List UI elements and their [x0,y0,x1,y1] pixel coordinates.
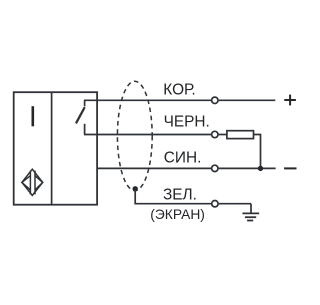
terminal circle 3 [212,165,218,171]
cable sheath ellipse [117,81,152,190]
minus sign [284,167,296,169]
wire green shield ZEL [135,189,211,204]
wire blue SIN [97,167,211,169]
svg-text:КОР.: КОР. [163,82,195,99]
wire brown KOR [84,99,211,101]
plus sign [284,95,296,106]
svg-text:(ЭКРАН): (ЭКРАН) [150,207,205,222]
wire resistor to minus rail [254,135,261,169]
sensing element diamond [22,169,43,195]
resistor load [227,131,254,139]
svg-text:ЗЕЛ.: ЗЕЛ. [163,187,197,204]
terminal circle 4 [212,201,218,207]
switch contact Q [76,100,84,134]
shield junction dot [133,186,138,191]
wire to ground [250,204,252,213]
ground symbol [242,213,259,220]
terminal circle 2 [212,131,218,137]
junction dot resistor/minus [258,166,263,171]
terminal circle 1 [212,97,218,103]
svg-text:СИН.: СИН. [164,149,202,166]
sensor body outline [14,92,97,205]
indicator I mark [31,106,34,126]
sensor body divider [51,92,53,205]
wire black CHERN [84,134,211,136]
svg-text:ЧЕРН.: ЧЕРН. [164,114,210,131]
